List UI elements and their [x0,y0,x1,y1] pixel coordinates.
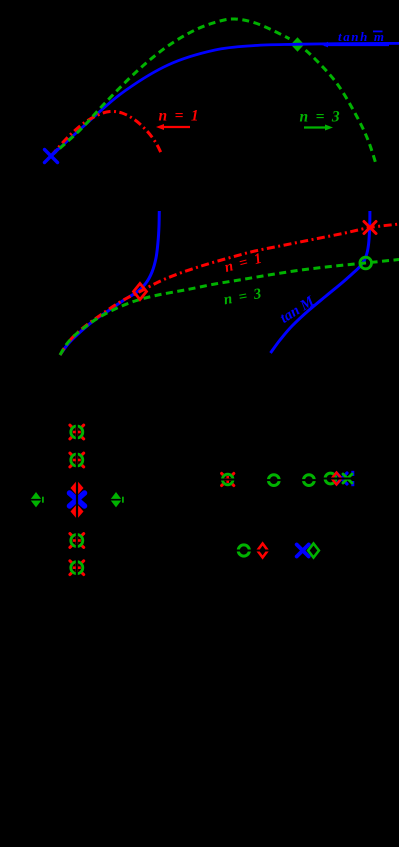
green open circle marker (middle subplot, on right blue branch) [360,257,372,269]
curve red dash-dot n=1 (top subplot) [51,111,162,156]
bottom row: red open diamond [255,544,270,558]
lone green diamond with cap (right) [108,492,124,507]
svg-text:n = 1: n = 1 [159,108,201,125]
curve green dashed n=3 (middle subplot) [60,260,399,356]
right cluster: green circle + red diamond + blue X + green X + blue dashes [322,471,357,486]
bottom row: green open diamond [308,544,319,558]
central cluster: red diamond above [71,481,84,496]
lone green diamond with cap (left) [28,492,44,507]
composite marker column 1 row 2 [70,451,84,470]
central cluster: black slit [76,479,78,521]
composite marker (green ring + red X + red plus) column 1 row 1 [70,423,84,442]
right group: green ring 2 [301,475,317,486]
curve blue solid tan M left branch (middle subplot) [60,211,159,355]
right group: composite marker (green ring + red X + red bars) [220,473,236,485]
red open diamond marker (middle subplot, on left blue branch) [134,284,147,300]
svg-text:n = 3: n = 3 [300,109,342,126]
label tanh m-bar (blue) [338,29,386,44]
bottom row: blue thick X [297,545,309,557]
annotation arrow under n=1 (red, pointing left) [156,124,190,130]
curve red dash-dot n=1 (middle subplot) [60,224,399,355]
curve green dashed n=3 (top subplot, left of diamond) [51,19,290,156]
curve blue solid tan M right branch (middle subplot) [271,211,370,353]
bottom row: green ring [236,545,252,556]
central cluster: red diamond below [71,504,84,519]
right group: green ring 1 [266,475,282,486]
blue X marker at origin of top curves [45,150,58,163]
curve blue solid tanh m (top subplot) [51,43,399,156]
annotation arrow under n=3 (green, pointing right) [304,125,333,131]
composite marker column 1 row 5 [70,558,84,577]
composite marker column 1 row 4 [70,531,84,550]
curve green dashed n=3 (top subplot, right of diamond) [306,50,377,164]
annotation arrow under tanh label (blue, pointing left) [321,42,389,48]
central cluster: blue thick X [70,493,85,506]
red X marker (middle subplot, top of right blue branch) [364,222,376,234]
green diamond marker on tanh curve (top subplot) [288,35,307,55]
